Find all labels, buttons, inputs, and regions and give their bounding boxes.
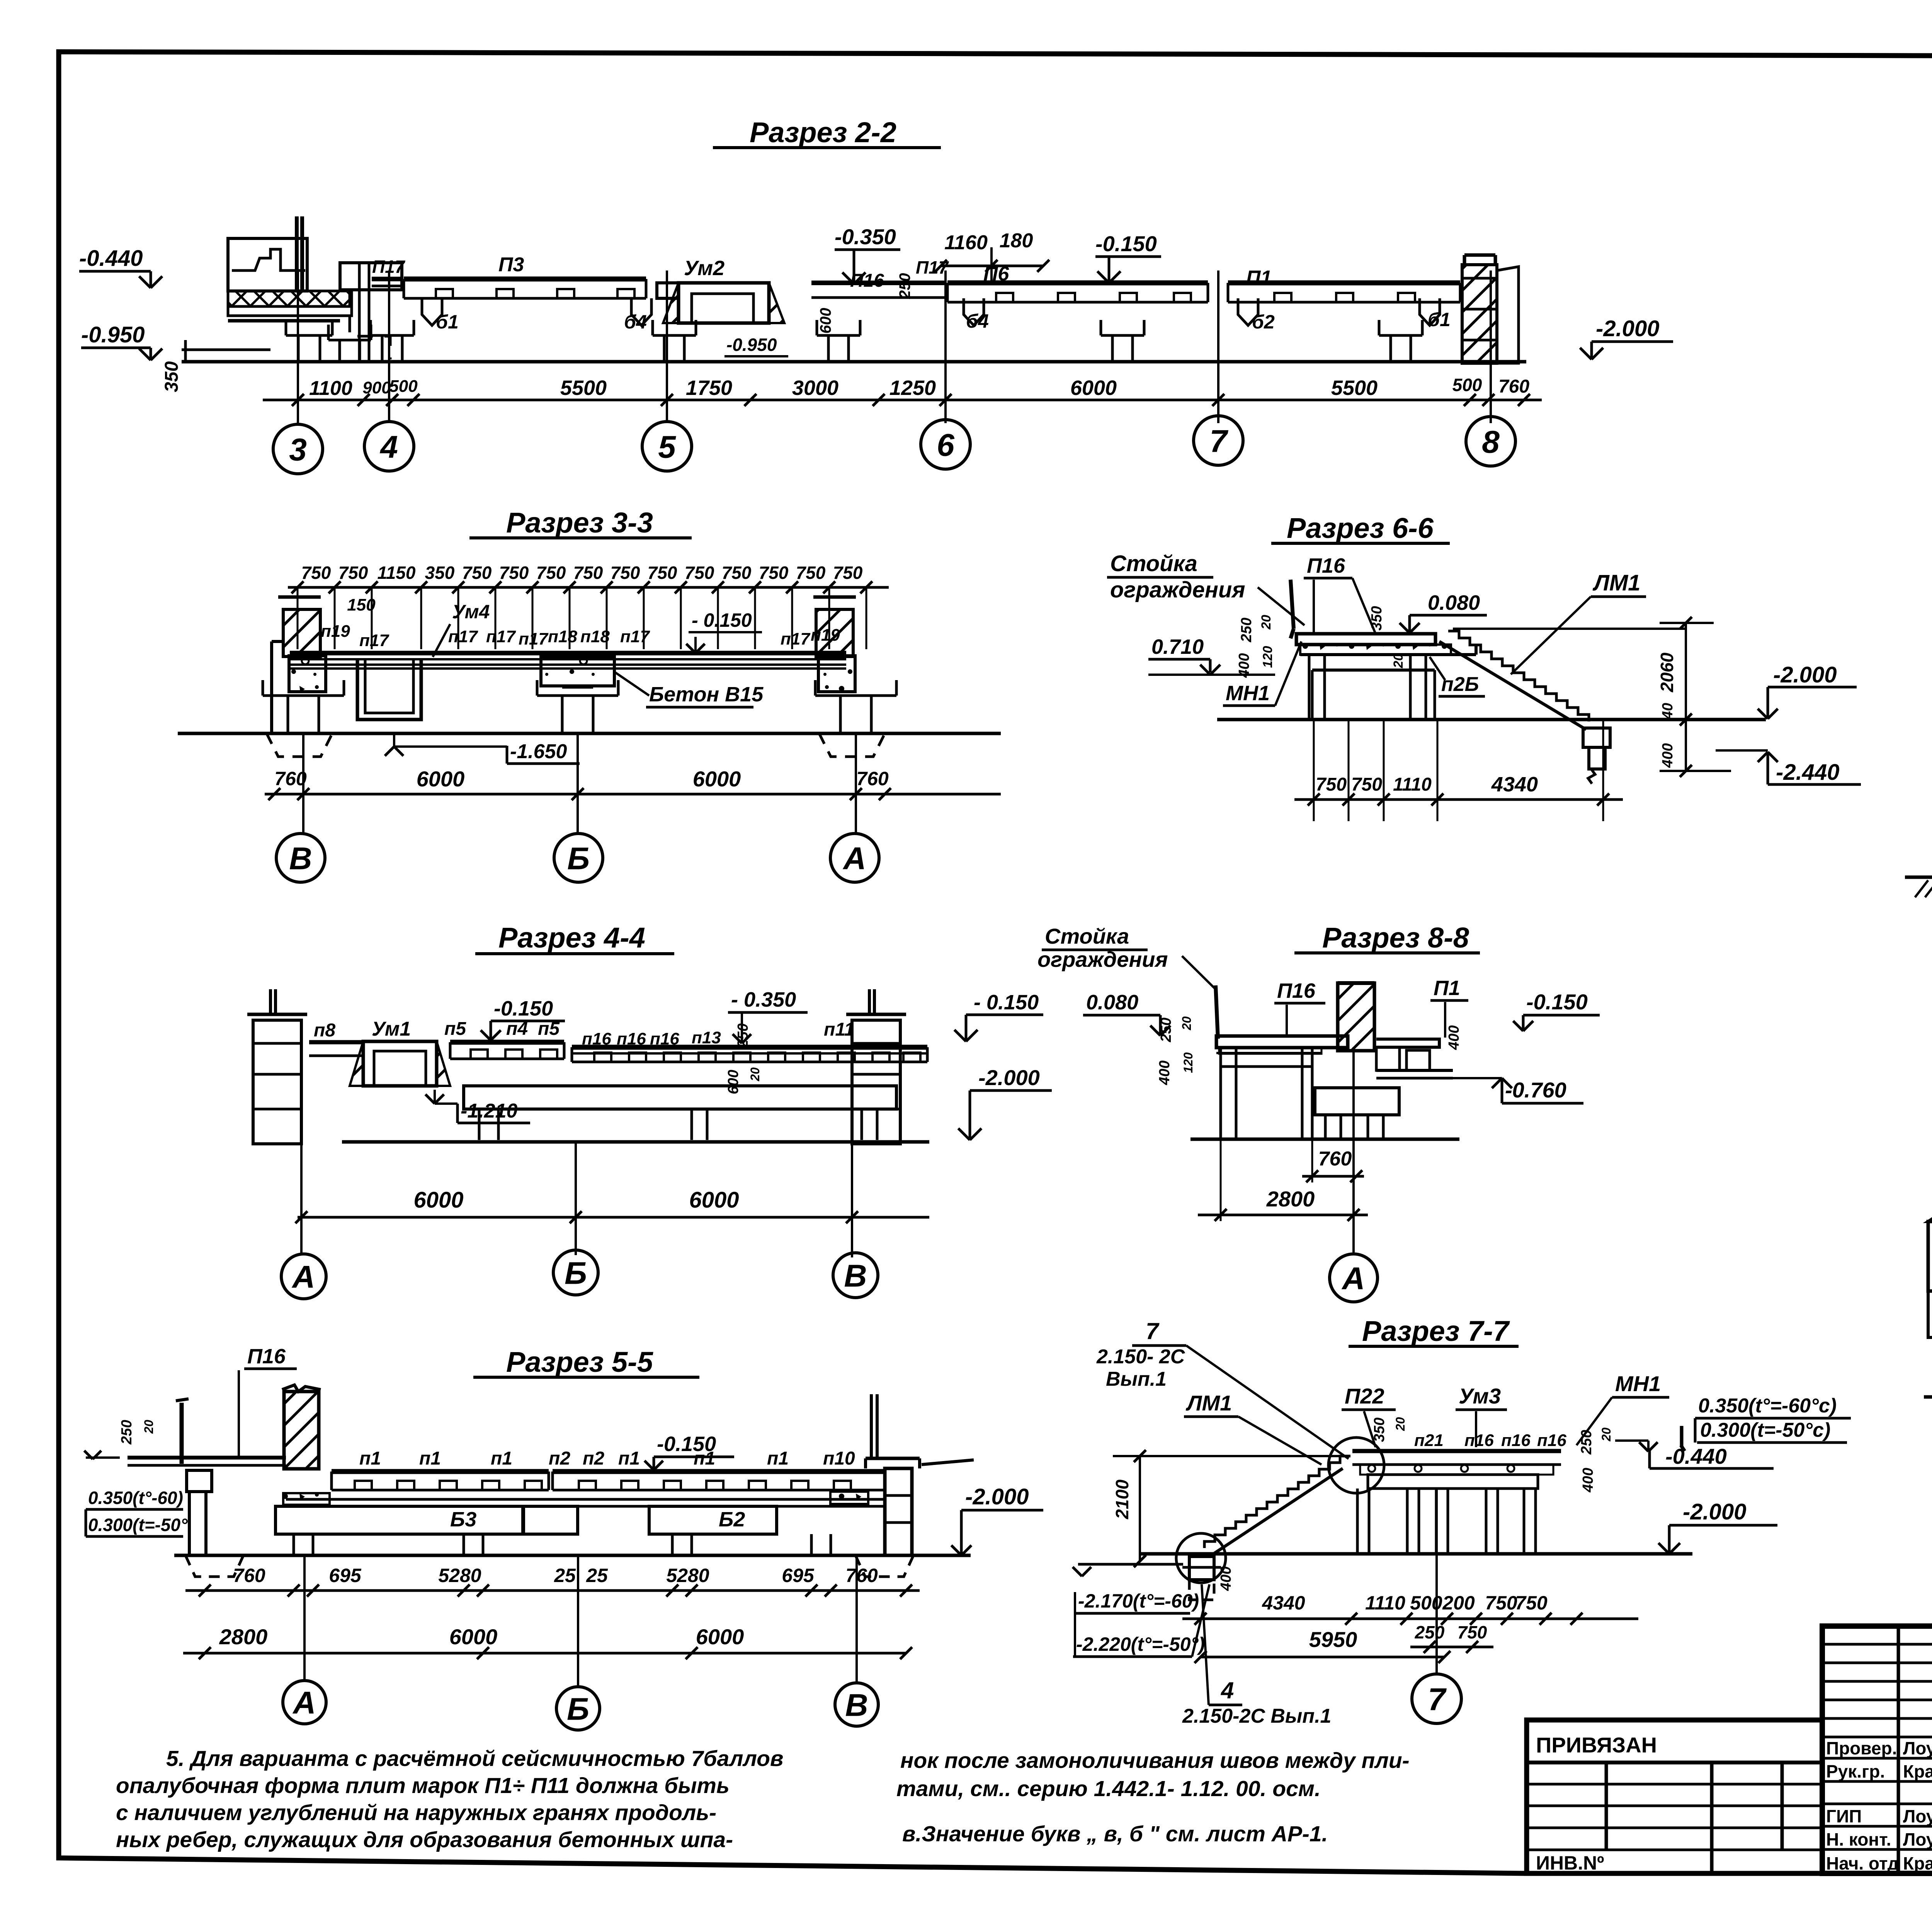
level 0.080 (6-6) — [1400, 591, 1487, 633]
dim 2800 (8-8) — [1198, 1139, 1368, 1221]
svg-text:3000: 3000 — [792, 376, 838, 400]
svg-text:350: 350 — [1371, 1417, 1388, 1442]
svg-text:Разрез 2-2: Разрез 2-2 — [750, 116, 896, 148]
svg-text:-0.440: -0.440 — [1665, 1444, 1727, 1468]
svg-text:П16: П16 — [1307, 554, 1345, 577]
svg-text:6000: 6000 — [417, 767, 465, 791]
svg-text:п10: п10 — [823, 1448, 855, 1469]
svg-text:750: 750 — [1515, 1592, 1548, 1614]
svg-text:20: 20 — [1180, 1016, 1194, 1031]
svg-text:5280: 5280 — [666, 1565, 709, 1586]
svg-text:0.350(t°=-60°с): 0.350(t°=-60°с) — [1698, 1395, 1837, 1417]
bottom right detail — [1928, 1028, 1932, 1397]
svg-text:500: 500 — [1452, 375, 1482, 395]
label П22 (7-7) — [1342, 1384, 1396, 1447]
dims (7-7) row1 — [1182, 1592, 1638, 1653]
level -0.760 (8-8) — [1453, 1078, 1583, 1103]
svg-text:б2: б2 — [1252, 311, 1275, 333]
stair flight 6-6 — [1439, 631, 1610, 784]
level mark -2.000 — [958, 1065, 1052, 1140]
svg-text:нок после замоноличивания шв: нок после замоноличивания швов между пли… — [900, 1748, 1410, 1773]
title block: main stamp — [1822, 1626, 1932, 1908]
svg-text:ГИП: ГИП — [1826, 1806, 1862, 1826]
svg-text:б1: б1 — [436, 311, 459, 333]
svg-text:900: 900 — [362, 378, 391, 397]
svg-text:180: 180 — [1000, 230, 1033, 252]
dims 4-4 — [295, 1187, 929, 1223]
svg-text:760: 760 — [1498, 376, 1529, 397]
svg-text:с наличием углублений на нар: с наличием углублений на наружных гранях… — [116, 1800, 716, 1825]
svg-text:- 0.150: - 0.150 — [974, 991, 1039, 1014]
svg-text:7: 7 — [1146, 1318, 1160, 1344]
axis circle А — [1330, 1254, 1378, 1302]
svg-text:250: 250 — [1158, 1017, 1174, 1042]
end wall at axis 8 — [1462, 265, 1497, 363]
svg-text:-1.650: -1.650 — [510, 740, 567, 763]
svg-text:760: 760 — [856, 768, 889, 789]
svg-text:5: 5 — [658, 430, 676, 465]
beam marks — [422, 298, 442, 325]
small vertical dims (6-6) — [1236, 606, 1406, 678]
labels 3-3 — [321, 601, 840, 707]
axis А (8-8) — [1352, 1047, 1355, 1254]
svg-text:1110: 1110 — [1393, 774, 1432, 795]
svg-text:Разрез 3-3: Разрез 3-3 — [506, 507, 653, 539]
svg-text:350: 350 — [425, 563, 455, 583]
svg-text:2.150-2С Вып.1: 2.150-2С Вып.1 — [1182, 1705, 1331, 1727]
svg-text:0.300(t=-50°: 0.300(t=-50° — [88, 1515, 188, 1535]
axis circle Б — [556, 1687, 600, 1730]
svg-text:5500: 5500 — [560, 376, 607, 400]
svg-text:750: 750 — [301, 563, 331, 583]
svg-text:Разрез 4-4: Разрез 4-4 — [498, 922, 645, 954]
svg-text:п2: п2 — [549, 1448, 570, 1469]
svg-text:п17: п17 — [519, 629, 549, 648]
svg-text:-2.000: -2.000 — [1773, 662, 1837, 687]
axis circle 8 — [1466, 417, 1515, 466]
svg-text:П22: П22 — [1345, 1384, 1384, 1408]
section title Razrez 2-2 — [713, 116, 941, 148]
axis circle В — [835, 1683, 878, 1726]
labels 5-5 — [359, 1448, 855, 1531]
svg-text:-2.220(t°=-50°): -2.220(t°=-50°) — [1076, 1633, 1205, 1655]
svg-text:750: 750 — [1458, 1622, 1487, 1642]
svg-text:5. Для варианта с расчётной се: 5. Для варианта с расчётной сейсмичность… — [166, 1746, 783, 1771]
section title Razrez 3-3 — [469, 507, 692, 539]
dim 760 (8-8) — [1302, 1139, 1364, 1182]
level -2.440 — [1716, 750, 1861, 785]
slab П6 — [947, 281, 1208, 286]
drawing 8-8 — [1190, 983, 1459, 1139]
labels 4-4 — [314, 1018, 854, 1048]
svg-text:750: 750 — [338, 563, 368, 583]
svg-text:Ум1: Ум1 — [372, 1018, 411, 1040]
svg-text:1110: 1110 — [1365, 1592, 1405, 1614]
svg-text:опалубочная форма плит марок: опалубочная форма плит марок П1÷ П11 дол… — [116, 1773, 730, 1798]
level -0.150 (8-8) — [1513, 990, 1600, 1031]
svg-text:-0.150: -0.150 — [657, 1432, 716, 1456]
svg-text:В: В — [844, 1259, 867, 1294]
svg-text:-0.150: -0.150 — [494, 997, 553, 1020]
svg-text:120: 120 — [1181, 1052, 1195, 1073]
section 2-2 drawing — [182, 216, 1526, 363]
svg-text:5950: 5950 — [1309, 1627, 1357, 1652]
svg-text:750: 750 — [462, 563, 492, 583]
label Ум3 (7-7) — [1456, 1384, 1507, 1447]
level mark -2.000 — [1580, 316, 1673, 359]
svg-text:Нач. отд: Нач. отд — [1826, 1853, 1899, 1873]
level -0.150 (4-4) — [481, 997, 565, 1040]
level mark -0.950 — [81, 322, 162, 360]
svg-text:0.710: 0.710 — [1151, 635, 1204, 658]
level mark - 0.150 — [954, 991, 1043, 1041]
svg-text:750: 750 — [536, 563, 566, 583]
small dims 8-8 — [1156, 1016, 1462, 1085]
svg-text:4340: 4340 — [1262, 1592, 1305, 1614]
svg-text:0.300(t=-50°c): 0.300(t=-50°c) — [1700, 1419, 1830, 1441]
svg-text:6000: 6000 — [449, 1625, 498, 1649]
section title Razrez 4-4 — [475, 922, 674, 954]
labels п21 п16 (7-7) — [1414, 1431, 1566, 1450]
svg-text:б4: б4 — [966, 310, 989, 332]
svg-text:Стойка: Стойка — [1110, 551, 1197, 576]
ground bottom detail — [1924, 1395, 1932, 1399]
svg-text:п17: п17 — [620, 627, 650, 646]
svg-text:1750: 1750 — [686, 376, 732, 400]
slab П1 — [1228, 281, 1460, 286]
svg-text:695: 695 — [329, 1565, 362, 1586]
section title Razrez 5-5 — [473, 1346, 699, 1378]
svg-text:1160: 1160 — [944, 231, 988, 254]
title block: left table ПРИВЯЗАН — [1527, 1720, 1822, 1874]
label ЛМ1 (6-6) — [1511, 570, 1646, 674]
svg-text:А: А — [292, 1686, 316, 1721]
svg-text:П16: П16 — [247, 1345, 286, 1368]
svg-text:400: 400 — [1446, 1025, 1462, 1050]
axis circle Б — [554, 834, 603, 882]
mark -1.210 (4-4) — [425, 1090, 530, 1123]
svg-text:п21: п21 — [1414, 1431, 1444, 1450]
svg-text:-1.210: -1.210 — [461, 1100, 518, 1122]
svg-text:п19: п19 — [321, 622, 350, 641]
svg-text:-0.440: -0.440 — [79, 246, 143, 271]
section title Razrez 7-7 — [1349, 1315, 1519, 1347]
svg-text:Краснова: Краснова — [1903, 1761, 1932, 1781]
labels section 2-2 — [372, 253, 1451, 333]
svg-text:ИНВ.Nº: ИНВ.Nº — [1536, 1852, 1604, 1874]
slabs П16/П17 between axes 5-6 — [811, 281, 947, 285]
svg-text:Лоуцкер: Лоуцкер — [1903, 1829, 1932, 1849]
svg-text:ограждения: ограждения — [1037, 947, 1168, 971]
svg-text:п16: п16 — [1537, 1431, 1566, 1450]
svg-text:-2.000: -2.000 — [978, 1065, 1040, 1090]
svg-text:400: 400 — [1580, 1468, 1596, 1492]
axis circle А — [283, 1681, 326, 1724]
svg-text:600: 600 — [817, 308, 834, 334]
drawing 5-5 — [128, 1385, 974, 1577]
svg-text:0.350(t°-60): 0.350(t°-60) — [88, 1488, 183, 1508]
svg-text:-2.440: -2.440 — [1776, 760, 1839, 785]
svg-text:п16: п16 — [1464, 1431, 1494, 1450]
vert dims (7-7) — [1112, 1417, 1613, 1591]
svg-text:760: 760 — [1318, 1148, 1352, 1170]
svg-text:6000: 6000 — [413, 1187, 463, 1213]
mark -1.650 — [385, 733, 580, 764]
svg-text:ПРИВЯЗАН: ПРИВЯЗАН — [1536, 1733, 1657, 1757]
svg-text:-2.000: -2.000 — [965, 1484, 1029, 1509]
svg-text:Ум4: Ум4 — [452, 601, 490, 623]
svg-text:п18: п18 — [580, 627, 610, 646]
svg-text:750: 750 — [1351, 774, 1382, 795]
svg-text:п1: п1 — [767, 1448, 789, 1469]
svg-text:п16: п16 — [617, 1029, 646, 1048]
svg-text:Б: Б — [567, 1692, 589, 1727]
svg-text:750: 750 — [648, 563, 677, 583]
svg-text:п17: п17 — [781, 629, 811, 648]
axis circle А — [281, 1254, 326, 1299]
svg-text:Красавин: Красавин — [1903, 1853, 1932, 1873]
labels МН1 П2Б — [1223, 641, 1485, 706]
axis circle 7 — [1412, 1674, 1461, 1723]
svg-text:- 0.150: - 0.150 — [692, 609, 752, 631]
svg-text:4: 4 — [1221, 1677, 1234, 1703]
svg-text:А: А — [1341, 1261, 1365, 1296]
svg-text:Разрез 6-6: Разрез 6-6 — [1287, 512, 1434, 544]
stair (7-7) — [1176, 1438, 1384, 1600]
svg-text:п11: п11 — [824, 1019, 854, 1040]
svg-text:2060: 2060 — [1657, 652, 1677, 692]
axis circle 3 — [273, 424, 323, 474]
svg-text:-0.950: -0.950 — [81, 322, 145, 347]
svg-text:п1: п1 — [359, 1448, 381, 1469]
svg-text:2.150- 2С: 2.150- 2С — [1096, 1346, 1185, 1368]
label Стойка ограждения (8-8) — [1037, 924, 1216, 990]
dim row1 5-5 — [185, 1565, 920, 1597]
svg-text:Разрез 8-8: Разрез 8-8 — [1322, 922, 1469, 954]
axis lines 4-4 — [301, 1142, 852, 1257]
level mark -0.440 — [79, 246, 162, 288]
svg-text:П1: П1 — [1246, 267, 1272, 289]
label П16 (5-5) — [239, 1345, 297, 1457]
svg-text:Разрез 5-5: Разрез 5-5 — [506, 1346, 654, 1378]
temp marks -2.170/-2.220 (7-7) — [1073, 1567, 1209, 1657]
dim row2 5-5 — [183, 1625, 912, 1659]
label ЛМ1 (7-7) — [1184, 1391, 1321, 1465]
svg-text:250: 250 — [896, 273, 913, 299]
axis circle Б — [553, 1250, 598, 1295]
wall unit at axis 3 — [228, 238, 307, 291]
section title Razrez 6-6 — [1271, 512, 1450, 544]
svg-text:400: 400 — [1156, 1060, 1173, 1085]
svg-text:ЛМ1: ЛМ1 — [1185, 1391, 1232, 1415]
svg-text:п13: п13 — [692, 1028, 721, 1047]
svg-text:750: 750 — [833, 563, 863, 583]
svg-text:-2.170(t°=-60): -2.170(t°=-60) — [1078, 1590, 1199, 1612]
axis circle 6 — [921, 420, 970, 469]
svg-text:-0.350: -0.350 — [835, 225, 896, 249]
svg-text:20: 20 — [1599, 1427, 1613, 1442]
level -0.350 (4-4) — [725, 988, 808, 1094]
svg-text:400: 400 — [1660, 743, 1676, 768]
svg-text:п1: п1 — [491, 1448, 512, 1469]
label МН1 (7-7) — [1577, 1371, 1669, 1445]
svg-text:А: А — [842, 841, 866, 876]
svg-text:ЛМ1: ЛМ1 — [1592, 570, 1640, 595]
labels 8-8 — [1274, 977, 1468, 1038]
axis circle 5 — [642, 422, 692, 471]
svg-text:760: 760 — [233, 1565, 265, 1586]
svg-text:ных ребер, служащих для образо: ных ребер, служащих для образования бето… — [116, 1827, 733, 1852]
svg-text:695: 695 — [782, 1565, 815, 1586]
ground (7-7) — [1140, 1552, 1692, 1556]
svg-text:Б3: Б3 — [450, 1508, 476, 1531]
dimension row top of 3-3 — [288, 563, 889, 649]
ground line — [182, 360, 1526, 364]
temp notes 0.350/0.300 (5-5) — [84, 1420, 188, 1536]
svg-text:п17: п17 — [359, 631, 389, 650]
note text right column — [896, 1748, 1410, 1846]
axis circle В — [276, 834, 325, 882]
slab П3 — [404, 277, 646, 282]
svg-text:5500: 5500 — [1331, 376, 1378, 400]
level mark -0.350 — [835, 225, 900, 284]
svg-text:20: 20 — [1393, 1417, 1407, 1431]
svg-text:6000: 6000 — [696, 1625, 744, 1649]
svg-text:2800: 2800 — [219, 1625, 268, 1649]
trough Ум2 — [679, 283, 769, 323]
svg-text:250: 250 — [1578, 1430, 1595, 1455]
svg-text:6000: 6000 — [1070, 376, 1117, 400]
svg-text:250: 250 — [1415, 1622, 1445, 1642]
section 3-3 drawing — [178, 597, 1001, 757]
svg-text:п17: п17 — [486, 627, 516, 646]
svg-text:б4: б4 — [624, 311, 647, 333]
svg-text:П17: П17 — [916, 257, 949, 277]
svg-text:П1: П1 — [1434, 977, 1460, 1000]
svg-text:Б: Б — [567, 841, 590, 876]
svg-text:Лоуцкер: Лоуцкер — [1903, 1806, 1932, 1826]
platform (7-7) — [1352, 1426, 1685, 1554]
dims bottom 6-6 — [1294, 720, 1623, 821]
dim 1160/180 — [896, 230, 1049, 299]
svg-text:1100: 1100 — [309, 377, 352, 400]
svg-text:Рук.гр.: Рук.гр. — [1826, 1761, 1885, 1781]
svg-text:250: 250 — [1238, 618, 1255, 642]
svg-text:760: 760 — [845, 1565, 878, 1586]
platform slab 6-6 — [1291, 580, 1476, 655]
svg-text:в.Значение букв „ в, б " см.: в.Значение букв „ в, б " см. лист АР-1. — [902, 1822, 1328, 1846]
svg-text:п16: п16 — [582, 1029, 611, 1048]
svg-text:п2: п2 — [583, 1448, 604, 1469]
drawing 4-4 — [247, 989, 929, 1144]
svg-text:5280: 5280 — [438, 1565, 481, 1586]
svg-text:0.080: 0.080 — [1086, 991, 1138, 1014]
svg-text:200: 200 — [1442, 1592, 1475, 1614]
svg-text:п2Б: п2Б — [1441, 673, 1479, 696]
level 0.080 (8-8) — [1083, 991, 1170, 1036]
svg-text:7: 7 — [1209, 424, 1228, 459]
axis lines 2-2 — [298, 270, 1491, 423]
svg-text:400: 400 — [1236, 653, 1252, 678]
svg-text:750: 750 — [499, 563, 529, 583]
ground middle detail — [1905, 876, 1932, 879]
note text item 5 left column — [116, 1746, 783, 1852]
level 0.710 (6-6) — [1148, 635, 1275, 675]
svg-text:Б: Б — [565, 1256, 587, 1291]
label Стойка ограждения (6-6) — [1107, 551, 1304, 625]
svg-text:600: 600 — [725, 1070, 742, 1094]
svg-text:А: А — [291, 1260, 315, 1295]
svg-text:Ум2: Ум2 — [684, 257, 724, 280]
svg-text:750: 750 — [796, 563, 826, 583]
right dims 6-6 — [1453, 617, 1731, 777]
ground 6-6 — [1217, 718, 1766, 721]
svg-text:2100: 2100 — [1112, 1479, 1132, 1519]
svg-text:7: 7 — [1428, 1682, 1447, 1717]
svg-text:250: 250 — [119, 1420, 135, 1444]
svg-text:1150: 1150 — [378, 563, 416, 583]
svg-text:4: 4 — [379, 430, 398, 465]
svg-text:40: 40 — [1660, 703, 1676, 720]
supports 6-6 — [1309, 655, 1435, 719]
svg-text:п16: п16 — [1501, 1431, 1531, 1450]
svg-text:В: В — [845, 1688, 868, 1723]
svg-text:1250: 1250 — [889, 376, 936, 400]
svg-text:В: В — [289, 841, 312, 876]
level -2.000 (5-5) — [951, 1484, 1043, 1555]
svg-text:20: 20 — [1259, 615, 1274, 630]
svg-text:П16: П16 — [1277, 979, 1316, 1002]
svg-text:Б2: Б2 — [719, 1508, 745, 1531]
supports — [381, 335, 384, 361]
svg-text:Бетон В15: Бетон В15 — [649, 683, 764, 706]
svg-text:0.080: 0.080 — [1428, 591, 1480, 614]
svg-text:120: 120 — [1260, 646, 1275, 668]
svg-text:6000: 6000 — [689, 1187, 739, 1213]
svg-text:750: 750 — [1485, 1592, 1517, 1614]
svg-text:3: 3 — [289, 432, 307, 468]
svg-text:Н. конт.: Н. конт. — [1826, 1829, 1891, 1849]
svg-text:750: 750 — [611, 563, 640, 583]
svg-text:п1: п1 — [419, 1448, 441, 1469]
svg-text:8: 8 — [1482, 425, 1500, 460]
svg-text:6000: 6000 — [693, 767, 741, 791]
svg-text:-2.000: -2.000 — [1596, 316, 1659, 341]
svg-text:760: 760 — [274, 768, 307, 789]
axis lines 3-3 — [303, 733, 856, 834]
svg-text:750: 750 — [759, 563, 789, 583]
axis circle А — [830, 834, 879, 882]
svg-text:750: 750 — [722, 563, 752, 583]
svg-text:250: 250 — [735, 1023, 751, 1048]
svg-text:Провер.: Провер. — [1826, 1738, 1897, 1758]
svg-text:750: 750 — [685, 563, 714, 583]
svg-text:п1: п1 — [618, 1448, 640, 1469]
ref 4 (7-7) — [1182, 1584, 1331, 1727]
axis 7 (7-7) — [1435, 1489, 1438, 1673]
axis lines 5-5 — [304, 1555, 857, 1687]
svg-text:Стойка: Стойка — [1045, 924, 1129, 948]
level -2.000 (6-6) — [1758, 662, 1857, 719]
svg-text:п17: п17 — [448, 627, 478, 646]
svg-text:6: 6 — [937, 428, 955, 463]
svg-text:б1: б1 — [1428, 309, 1451, 330]
svg-text:п8: п8 — [314, 1020, 335, 1041]
svg-text:Вып.1: Вып.1 — [1106, 1368, 1167, 1390]
axis circle 7 — [1194, 416, 1243, 465]
svg-text:20: 20 — [748, 1067, 762, 1082]
level -0.440 (7-7) — [1615, 1441, 1774, 1468]
